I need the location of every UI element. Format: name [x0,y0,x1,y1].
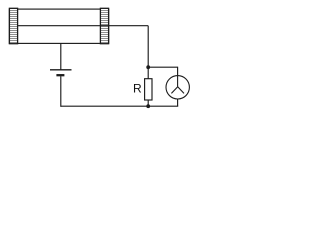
wire (down from central electrode to top junction) [147,26,149,67]
svg-text:R: R [133,82,142,96]
resistor R (box) [145,79,152,100]
wire (chamber bottom down to battery +) [60,43,62,69]
battery B1 long plate (+) [50,69,72,71]
galvanometer leg (down-right) [178,87,184,94]
wire (galvanometer bottom stub) [177,99,179,106]
wire (top junction down to resistor) [147,67,149,79]
node (bottom junction) [146,104,150,108]
wire (bottom return, horizontal) [61,105,178,107]
wire (top junction to galvanometer, horizontal) [148,66,177,68]
wire (battery - down to bottom return) [60,76,62,107]
wire (resistor bottom to bottom junction) [147,100,149,106]
right electrode E2 (hatched plate) [100,8,108,43]
galvanometer stem (vertical line to center) [177,76,179,87]
battery B1 short plate (-) [56,74,64,76]
wire (down into galvanometer) [177,67,179,76]
ionization chamber body (outer rectangle) [9,9,108,43]
left electrode E1 (hatched plate) [9,8,17,43]
central electrode wire (through chamber, exits right) [18,25,149,27]
galvanometer leg (down-left) [171,87,177,94]
galvanometer G (circle) [166,76,189,99]
node (top junction) [146,65,150,69]
